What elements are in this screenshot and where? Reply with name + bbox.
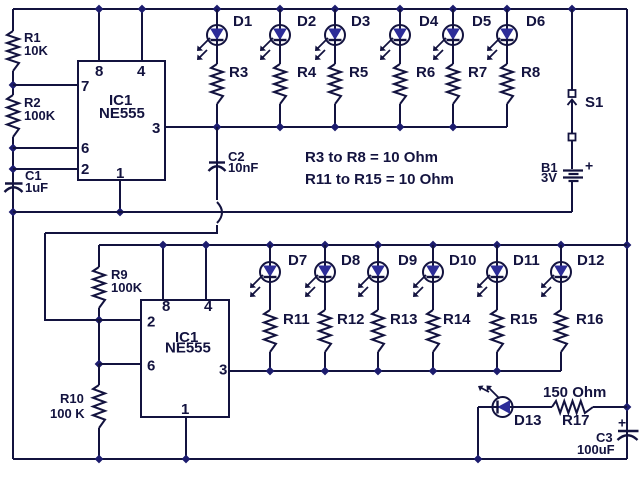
wire anode lead D7 xyxy=(269,245,271,262)
wire R11 to pin3 rail xyxy=(269,352,271,371)
wire D7 to R11 xyxy=(269,282,271,310)
node pin3 rail junction R12 xyxy=(321,367,330,376)
svg-text:100K: 100K xyxy=(24,108,56,123)
svg-text:R7: R7 xyxy=(468,64,487,81)
wire R8 to pin3 rail xyxy=(506,104,508,127)
wire R15 to pin3 rail xyxy=(496,352,498,371)
node pin3 rail junction R13 xyxy=(374,367,383,376)
LED D13 xyxy=(478,386,542,430)
svg-text:100uF: 100uF xyxy=(577,442,615,457)
svg-text:D11: D11 xyxy=(513,252,540,269)
svg-text:4: 4 xyxy=(137,63,146,80)
svg-text:D8: D8 xyxy=(341,252,360,269)
svg-text:D1: D1 xyxy=(233,13,252,30)
resistor R13 xyxy=(372,310,418,352)
node top rail junction D1 xyxy=(213,5,222,14)
wire R9 junction down to pin6 xyxy=(98,320,100,364)
pin 2 label IC2 xyxy=(147,314,155,331)
svg-text:R14: R14 xyxy=(443,311,471,328)
svg-text:R12: R12 xyxy=(337,311,365,328)
wire D12 to R16 xyxy=(560,282,562,310)
svg-text:150 Ohm: 150 Ohm xyxy=(543,384,606,401)
capacitor C3 xyxy=(577,415,639,458)
wire bottom ground rail xyxy=(13,458,627,460)
wire anode lead D12 xyxy=(560,245,562,262)
wire R16 to pin3 rail xyxy=(560,352,562,371)
wire pin2 of IC2 xyxy=(45,319,141,321)
wire anode lead D5 xyxy=(452,9,454,25)
wire pin7 of IC1 xyxy=(13,84,78,86)
wire R5 to pin3 rail xyxy=(334,104,336,127)
wire mid return rail xyxy=(13,211,572,213)
wire top supply rail xyxy=(13,8,627,10)
resistor R1 xyxy=(7,30,48,71)
node pin3 rail junction R11 xyxy=(266,367,275,376)
op-amp IC1 NE555 (top timer) box xyxy=(78,61,165,180)
svg-text:R3: R3 xyxy=(229,64,248,81)
node pin3 rail junction R6 xyxy=(396,123,405,132)
svg-text:D12: D12 xyxy=(577,252,605,269)
wire anode lead D10 xyxy=(432,245,434,262)
wire pin6 of IC2 xyxy=(99,363,141,365)
wire lower supply rail xyxy=(99,244,627,246)
wire R6 to pin3 rail xyxy=(399,104,401,127)
resistor R4 xyxy=(274,64,317,104)
node pin4 top rail junction xyxy=(138,5,147,14)
node C1 lower junction xyxy=(9,208,18,217)
node top rail junction D5 xyxy=(449,5,458,14)
wire anode lead D3 xyxy=(334,9,336,25)
pin 3 label IC1 xyxy=(152,120,160,137)
wire R12 to pin3 rail xyxy=(324,352,326,371)
node D13 ground junction xyxy=(474,455,483,464)
wire R4 to pin3 rail xyxy=(279,104,281,127)
node pin7 junction xyxy=(9,81,18,90)
svg-text:4: 4 xyxy=(204,298,213,315)
resistor R10 xyxy=(50,364,105,428)
node pin6 junction lower xyxy=(95,360,104,369)
node lower rail junction D10 xyxy=(429,241,438,250)
wire R14 to pin3 rail xyxy=(432,352,434,371)
capacitor C2 xyxy=(209,127,259,175)
wire D10 to R14 xyxy=(432,282,434,310)
wire D13 branch vertical xyxy=(477,407,479,459)
svg-text:D2: D2 xyxy=(297,13,316,30)
LED D7 xyxy=(250,252,307,297)
node pin2 junction xyxy=(9,165,18,174)
wire D5 to R7 xyxy=(452,45,454,64)
node right rail R17 junction xyxy=(623,403,632,412)
wire D13 left lead xyxy=(478,406,493,408)
battery B1 xyxy=(541,158,593,186)
svg-text:D7: D7 xyxy=(288,252,307,269)
svg-text:+: + xyxy=(618,415,626,431)
wire pin2 of IC1 xyxy=(13,168,78,170)
resistor R2 xyxy=(7,95,56,137)
wire D11 to R15 xyxy=(496,282,498,310)
svg-text:8: 8 xyxy=(162,298,170,315)
pin 6 label IC1 xyxy=(81,140,89,157)
svg-text:3: 3 xyxy=(152,120,160,137)
wire D6 to R8 xyxy=(506,45,508,64)
wire anode lead D1 xyxy=(216,9,218,25)
wire pin6 of IC1 xyxy=(13,147,78,149)
wire pin1 of IC1 xyxy=(119,180,121,212)
svg-text:R8: R8 xyxy=(521,64,540,81)
svg-text:6: 6 xyxy=(147,358,155,375)
node pin3 rail junction R7 xyxy=(449,123,458,132)
wire C2 return horizontal xyxy=(45,232,218,234)
node pin8 top rail junction xyxy=(95,5,104,14)
wire R13 to pin3 rail xyxy=(377,352,379,371)
wire B1 to mid rail xyxy=(571,181,573,212)
wire D9 to R13 xyxy=(377,282,379,310)
resistor R6 xyxy=(394,64,435,104)
pin 4 label IC1 xyxy=(137,63,146,80)
svg-text:8: 8 xyxy=(95,63,103,80)
svg-text:R13: R13 xyxy=(390,311,418,328)
wire D4 to R6 xyxy=(399,45,401,64)
LED D1 xyxy=(197,13,252,60)
node top rail junction D2 xyxy=(276,5,285,14)
wire pin3 rail of IC1 xyxy=(165,126,507,128)
resistor R7 xyxy=(447,64,487,104)
wire right rail below C3 xyxy=(626,431,628,459)
pin 4 label IC2 xyxy=(204,298,213,315)
resistor R15 xyxy=(491,310,538,352)
svg-text:100 K: 100 K xyxy=(50,406,85,421)
node top rail junction D6 xyxy=(503,5,512,14)
svg-text:D13: D13 xyxy=(514,412,542,429)
svg-text:R17: R17 xyxy=(562,412,590,429)
svg-text:D9: D9 xyxy=(398,252,417,269)
node S1 branch top junction xyxy=(568,5,577,14)
svg-text:6: 6 xyxy=(81,140,89,157)
wire D13 to R17 xyxy=(513,406,553,408)
capacitor C1 xyxy=(5,168,49,195)
svg-text:2: 2 xyxy=(81,161,89,178)
resistor R9 xyxy=(93,245,143,308)
svg-text:R5: R5 xyxy=(349,64,368,81)
svg-text:2: 2 xyxy=(147,314,155,331)
note resistor values top xyxy=(305,149,438,166)
node lower rail junction D8 xyxy=(321,241,330,250)
svg-text:R16: R16 xyxy=(576,311,604,328)
wire C2 return vertical xyxy=(44,233,46,321)
wire pin1 of IC2 xyxy=(185,417,187,459)
LED D6 xyxy=(487,13,545,60)
svg-text:R11 to R15 = 10 Ohm: R11 to R15 = 10 Ohm xyxy=(305,171,454,188)
node pin1 ground junction xyxy=(182,455,191,464)
resistor R5 xyxy=(329,64,368,104)
node lower rail junction D7 xyxy=(266,241,275,250)
node pin3 rail junction R14 xyxy=(429,367,438,376)
wire left rail upper segment xyxy=(12,9,14,31)
resistor R14 xyxy=(427,310,471,352)
svg-text:+: + xyxy=(585,158,593,174)
node R9 pin2 junction xyxy=(95,316,104,325)
LED D4 xyxy=(380,13,439,60)
note resistor values bottom xyxy=(305,171,454,188)
LED D8 xyxy=(305,252,360,297)
node pin3 rail junction R3 xyxy=(213,123,222,132)
node pin6 junction xyxy=(9,144,18,153)
wire right rail xyxy=(626,9,628,440)
svg-text:10nF: 10nF xyxy=(228,160,258,175)
wire S1 branch upper xyxy=(571,9,573,90)
LED D12 xyxy=(541,252,605,297)
svg-text:R10: R10 xyxy=(60,391,84,406)
svg-text:NE555: NE555 xyxy=(165,340,211,357)
LED D3 xyxy=(315,13,370,60)
wire D2 to R4 xyxy=(279,45,281,64)
wire R9 to pin2 xyxy=(98,308,100,321)
svg-text:1uF: 1uF xyxy=(25,180,48,195)
wire C2 lead below hop xyxy=(216,225,218,234)
node right rail lower supply junction xyxy=(623,241,632,250)
wire anode lead D8 xyxy=(324,245,326,262)
svg-text:R6: R6 xyxy=(416,64,435,81)
resistor R11 xyxy=(264,310,310,352)
wire anode lead D9 xyxy=(377,245,379,262)
pin 3 label IC2 xyxy=(219,362,227,379)
op-amp IC2 NE555 (bottom timer) box xyxy=(141,300,229,417)
wire pin3 rail of IC2 xyxy=(229,370,561,372)
wire R3 to pin3 rail xyxy=(216,104,218,127)
svg-text:D10: D10 xyxy=(449,252,477,269)
wire anode lead D2 xyxy=(279,9,281,25)
wire pin4 of IC1 xyxy=(141,9,143,61)
pin 8 label IC1 xyxy=(95,63,103,80)
svg-text:7: 7 xyxy=(81,78,89,95)
wire R10 to ground rail xyxy=(98,428,100,459)
wire left rail between R1 and R2 xyxy=(12,71,14,95)
wire left rail below C1 xyxy=(12,183,14,459)
pin 8 label IC2 xyxy=(162,298,170,315)
svg-text:R4: R4 xyxy=(297,64,317,81)
node pin3 rail junction R4 xyxy=(276,123,285,132)
wire anode lead D4 xyxy=(399,9,401,25)
wire hop over mid rail xyxy=(217,202,222,223)
svg-text:3V: 3V xyxy=(541,170,557,185)
svg-text:100K: 100K xyxy=(111,280,143,295)
svg-text:R15: R15 xyxy=(510,311,538,328)
pin 7 label IC1 xyxy=(81,78,89,95)
svg-text:D3: D3 xyxy=(351,13,370,30)
node top rail junction D3 xyxy=(331,5,340,14)
resistor R8 xyxy=(501,64,540,104)
LED D11 xyxy=(477,252,540,297)
wire R7 to pin3 rail xyxy=(452,104,454,127)
node pin1 junction on mid rail xyxy=(116,208,125,217)
LED D2 xyxy=(260,13,316,60)
svg-text:S1: S1 xyxy=(585,94,603,111)
switch S1 xyxy=(568,90,604,141)
wire anode lead D11 xyxy=(496,245,498,262)
wire D3 to R5 xyxy=(334,45,336,64)
node lower rail junction D9 xyxy=(374,241,383,250)
wire R17 to right rail xyxy=(593,406,627,408)
svg-text:1: 1 xyxy=(116,165,124,182)
resistor R16 xyxy=(555,310,604,352)
svg-text:D5: D5 xyxy=(472,13,491,30)
wire pin8 of IC1 xyxy=(98,9,100,61)
pin 1 label IC1 xyxy=(116,165,124,182)
wire pin8 of IC2 xyxy=(162,245,164,300)
svg-text:NE555: NE555 xyxy=(99,105,145,122)
resistor R3 xyxy=(211,64,248,104)
node pin4 lower rail junction xyxy=(202,241,211,250)
LED D5 xyxy=(433,13,491,60)
wire C2 lower lead xyxy=(216,171,218,200)
svg-text:3: 3 xyxy=(219,362,227,379)
LED D9 xyxy=(358,252,417,297)
pin 2 label IC1 xyxy=(81,161,89,178)
node R10 ground junction xyxy=(95,455,104,464)
wire D1 to R3 xyxy=(216,45,218,64)
svg-text:1: 1 xyxy=(181,401,189,418)
node pin3 rail junction R5 xyxy=(331,123,340,132)
node pin8 lower rail junction xyxy=(159,241,168,250)
pin 6 label IC2 xyxy=(147,358,155,375)
node lower rail junction D12 xyxy=(557,241,566,250)
svg-text:R11: R11 xyxy=(283,311,310,328)
svg-text:10K: 10K xyxy=(24,43,48,58)
wire anode lead D6 xyxy=(506,9,508,25)
wire D8 to R12 xyxy=(324,282,326,310)
node top rail junction D4 xyxy=(396,5,405,14)
node lower rail junction D11 xyxy=(493,241,502,250)
LED D10 xyxy=(413,252,477,297)
svg-text:D4: D4 xyxy=(419,13,439,30)
wire S1 to B1 xyxy=(571,140,573,169)
wire left rail between R2 and C1 xyxy=(12,137,14,192)
svg-text:D6: D6 xyxy=(526,13,545,30)
node pin3 rail junction R15 xyxy=(493,367,502,376)
pin 1 label IC2 xyxy=(181,401,189,418)
svg-text:R3 to R8 = 10 Ohm: R3 to R8 = 10 Ohm xyxy=(305,149,438,166)
resistor R12 xyxy=(319,310,365,352)
wire pin4 of IC2 xyxy=(205,245,207,300)
resistor R17 xyxy=(543,384,606,429)
